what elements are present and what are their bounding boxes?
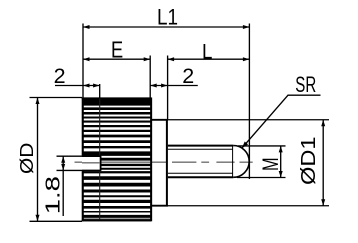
- svg-text:L1: L1: [157, 5, 178, 30]
- svg-text:L: L: [202, 40, 212, 63]
- thread minor top: [168, 148, 233, 150]
- head contour: [82, 98, 152, 222]
- extension line collar face (x=167.6): [167, 56, 169, 120]
- extension line top: [30, 97, 83, 99]
- spherical tip arc: [233, 146, 249, 178]
- svg-text:E: E: [111, 38, 123, 63]
- thread major bottom: [168, 176, 234, 178]
- dimension line: [280, 146, 282, 178]
- head right face: [150, 98, 152, 222]
- dimension 2 (left, knurl chamfer): [54, 64, 100, 88]
- extension line top: [57, 155, 83, 157]
- extension line tip (x=249.4): [248, 24, 250, 180]
- head top edge: [82, 97, 152, 99]
- collar top edge (thick part): [151, 119, 168, 121]
- SR leader and label: [242, 73, 321, 148]
- leader diagonal: [242, 95, 288, 148]
- extension line bottom: [57, 169, 83, 171]
- notch (recess) in head left face: [82, 157, 101, 170]
- dimension line: [37, 98, 39, 222]
- collar (boss) between head and shaft: [151, 119, 168, 207]
- notch bottom edge: [82, 169, 101, 171]
- dome junction line: [232, 146, 234, 178]
- dimension OD1 (collar diameter): [168, 120, 329, 206]
- centerline (axis, dash-dot): [75, 161, 253, 163]
- knurl grooves (white gaps): [84, 107, 150, 219]
- svg-text:M: M: [258, 157, 283, 171]
- extension line bottom: [30, 220, 83, 222]
- extension line knurl right (x=150.2): [149, 56, 151, 98]
- extension line bottom: [237, 177, 286, 179]
- extension line bottom: [168, 205, 329, 207]
- svg-text:2: 2: [182, 64, 194, 88]
- dimension 2 (right, collar width): [150, 64, 198, 88]
- svg-text:SR: SR: [295, 73, 316, 98]
- head left face (interrupted by notch): [82, 98, 84, 156]
- chamfer boundary line on knurl: [99, 84, 101, 99]
- extension line top: [168, 119, 329, 121]
- svg-text:2: 2: [54, 64, 66, 88]
- leader underline: [288, 94, 321, 96]
- dimension L: [168, 40, 250, 63]
- dimension line: [322, 120, 324, 206]
- notch right edge: [100, 156, 102, 170]
- svg-text:ØD1: ØD1: [297, 137, 320, 185]
- shaft (threaded stem): [168, 146, 234, 178]
- thread major top: [168, 145, 234, 147]
- notch top edge: [82, 155, 101, 157]
- dimension L1: [83, 5, 249, 30]
- dimension 1.8 (notch height): [42, 156, 82, 216]
- arrowhead: [242, 142, 248, 149]
- dimension E: [83, 38, 150, 63]
- collar bottom edge (thick part): [151, 205, 168, 207]
- extension line top: [238, 145, 286, 147]
- collar right face: [166, 119, 168, 207]
- thread minor bottom: [168, 172, 233, 174]
- extension line left (x=83, head left): [82, 24, 84, 98]
- dimension line with arrows: [62, 156, 64, 216]
- knurled head body (black fill): [83, 98, 152, 222]
- svg-text:ØD: ØD: [17, 143, 38, 174]
- dimension M (thread): [237, 146, 286, 178]
- centerline through notch: [82, 162, 100, 164]
- svg-text:1.8: 1.8: [42, 176, 65, 214]
- dimension OD (head diameter): [17, 98, 82, 222]
- head bottom edge: [82, 220, 152, 222]
- centerline over knurl gap: [101, 161, 150, 163]
